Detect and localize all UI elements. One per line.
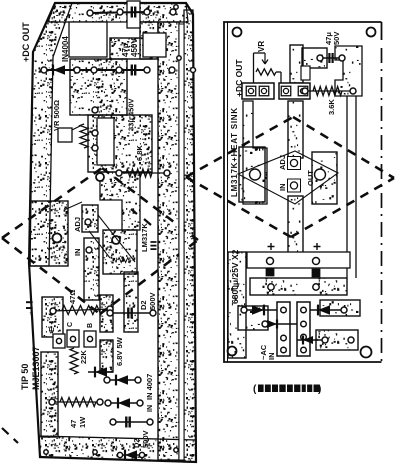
svg-text:D2: D2 xyxy=(132,438,141,448)
svg-text:33μ 450V: 33μ 450V xyxy=(127,98,136,131)
svg-text:1W: 1W xyxy=(78,416,87,428)
svg-text:IN 4007: IN 4007 xyxy=(145,374,154,400)
svg-text:TIP 50: TIP 50 xyxy=(20,364,30,390)
svg-text:B: B xyxy=(87,323,94,328)
svg-text:OUT: OUT xyxy=(306,170,315,186)
svg-text:47Ω: 47Ω xyxy=(68,290,77,304)
svg-text:6.8K: 6.8K xyxy=(135,145,144,161)
svg-text:IN: IN xyxy=(278,184,287,192)
svg-text:E: E xyxy=(49,327,56,332)
svg-text:C: C xyxy=(67,322,74,327)
svg-text:47μ: 47μ xyxy=(121,43,130,57)
svg-text:ADJ: ADJ xyxy=(278,155,287,170)
svg-text:22K: 22K xyxy=(79,350,88,364)
svg-text:→ ▌▐: → ▌▐ xyxy=(26,301,33,316)
svg-text:VR 500Ω: VR 500Ω xyxy=(52,100,61,131)
svg-text:50V: 50V xyxy=(332,32,341,45)
svg-text:500V: 500V xyxy=(141,430,150,448)
svg-text:450V: 450V xyxy=(130,38,139,57)
svg-text:IN: IN xyxy=(73,249,82,257)
svg-text:IN4004: IN4004 xyxy=(61,36,70,62)
svg-text:+DC OUT: +DC OUT xyxy=(21,22,31,62)
svg-text:IN: IN xyxy=(147,405,154,412)
svg-text:VR: VR xyxy=(257,41,266,52)
svg-text:IN: IN xyxy=(267,353,276,361)
svg-text:▌▌▌: ▌▌▌ xyxy=(150,239,157,250)
svg-text:3.6K: 3.6K xyxy=(327,99,336,115)
svg-text:500V: 500V xyxy=(148,292,157,310)
svg-text:ADJ: ADJ xyxy=(73,217,82,232)
svg-text:MJE13007: MJE13007 xyxy=(31,346,41,390)
svg-text:LM317K: LM317K xyxy=(140,223,149,252)
svg-text:D2: D2 xyxy=(139,300,148,310)
svg-text:6800μ/25V X2: 6800μ/25V X2 xyxy=(230,249,240,304)
svg-text:47: 47 xyxy=(69,420,78,428)
svg-text:6.8V 5W: 6.8V 5W xyxy=(115,336,124,366)
